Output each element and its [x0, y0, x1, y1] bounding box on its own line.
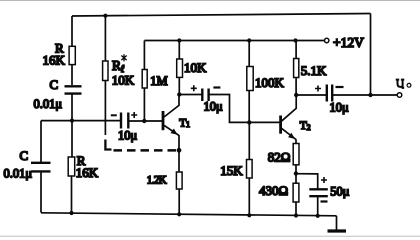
node: 100K rail junction: [247, 38, 251, 42]
wire: shunt R branch down: [71, 121, 73, 157]
terminal +12V: [325, 38, 329, 42]
capacitor C 0.01u (series): [65, 86, 82, 93]
transistor T2 emitter arrow: [288, 133, 295, 139]
svg-text:10μ: 10μ: [330, 101, 350, 115]
wire: cap to output terminal: [332, 94, 397, 96]
scan streak bottom edge: [0, 235, 420, 237]
svg-text:2: 2: [307, 123, 311, 132]
wire: junction to 50u: [296, 174, 318, 189]
svg-text:10μ: 10μ: [204, 100, 224, 114]
svg-text:16K: 16K: [43, 53, 66, 68]
svg-text:430Ω: 430Ω: [259, 183, 288, 198]
transistor T2 base bar: [279, 116, 282, 134]
svg-text:10K: 10K: [112, 73, 135, 88]
wire: emitter node down to 1.2K: [178, 150, 180, 172]
svg-text:5.1K: 5.1K: [301, 63, 327, 78]
transistor T2 collector: [281, 95, 296, 121]
svg-text:C: C: [50, 77, 59, 92]
wire: R16K to C: [71, 65, 73, 85]
wire: 100K to base wire: [248, 91, 250, 123]
node: feedback tap junction: [368, 93, 372, 97]
resistor R 16K (series, top-left): [69, 46, 75, 64]
capacitor 10u output: [327, 85, 332, 102]
wire: bottom ground rail: [41, 213, 337, 216]
node: 50u bottom junction: [316, 214, 320, 218]
node: 1M to base junction: [142, 119, 146, 123]
transistor T1 base bar: [162, 111, 165, 130]
svg-text:0.01μ: 0.01μ: [34, 97, 63, 111]
label plus: [131, 112, 137, 118]
wire: +12V rail: [144, 40, 325, 42]
wire: 100K top lead: [248, 41, 250, 67]
capacitor 50u: [309, 189, 328, 196]
ground: [336, 216, 338, 230]
resistor R 16K (shunt): [68, 157, 75, 176]
node: 10K rail junction: [177, 38, 181, 42]
node: 1.2K bottom junction: [177, 212, 181, 216]
resistor 5.1K: [294, 59, 299, 78]
svg-text:1M: 1M: [150, 74, 167, 88]
wire: series branch top lead: [71, 16, 73, 46]
wire: shunt C branch down: [40, 121, 42, 162]
wire: 1M to base: [143, 88, 145, 121]
wire: 5.1K to collector node: [295, 78, 297, 96]
node: Wien mid junction: [70, 119, 74, 123]
wire: collector to coupling cap: [179, 94, 202, 96]
node: 430 bottom junction: [294, 213, 298, 217]
transistor T1 collector: [164, 95, 179, 118]
resistor 1.2K: [176, 172, 182, 189]
label minus: [321, 200, 328, 202]
resistor 82ohm: [293, 144, 299, 165]
capacitor 10u input coupling: [121, 113, 128, 129]
node: 5.1K rail junction: [293, 38, 297, 42]
resistor 15K: [247, 160, 253, 179]
wire: dashed horizontal to emitter: [114, 149, 180, 152]
label minus: [111, 114, 117, 116]
svg-text:100K: 100K: [255, 75, 285, 90]
resistor 430ohm: [293, 183, 299, 202]
node: 100K base junction: [247, 120, 251, 124]
node: R* top junction: [103, 14, 107, 18]
scan streak top edge: [0, 0, 420, 2]
wire: 15K branch: [248, 122, 250, 159]
svg-text:0.01μ: 0.01μ: [4, 167, 33, 181]
wire: 1M branch top lead: [143, 41, 145, 70]
svg-text:10μ: 10μ: [118, 129, 138, 143]
transistor T1 emitter arrow: [171, 129, 178, 135]
wire: top feedback wire: [72, 14, 371, 17]
label minus: [213, 86, 220, 88]
node: T2 collector junction: [294, 93, 298, 97]
wire: 50u to rail: [317, 196, 319, 216]
capacitor 10u interstage: [202, 89, 208, 102]
svg-text:82Ω: 82Ω: [268, 149, 291, 164]
svg-text:C: C: [20, 148, 29, 163]
wire: output line: [296, 94, 326, 96]
wire: cap to T2 base: [209, 95, 281, 123]
svg-text:1.2K: 1.2K: [147, 175, 167, 187]
svg-text:+12V: +12V: [333, 35, 364, 50]
wire: T1 base wire: [128, 120, 163, 122]
node: emitter divider junction: [294, 171, 298, 175]
wire: 10K to collector node: [178, 77, 180, 94]
svg-text:1: 1: [186, 120, 190, 129]
resistor 100K: [247, 67, 253, 91]
svg-text:16K: 16K: [76, 165, 99, 180]
transistor T1 emitter: [164, 125, 179, 135]
label plus: [321, 177, 327, 183]
node: 15K bottom junction: [247, 213, 251, 217]
node: T1 collector junction: [177, 92, 181, 96]
resistor 1M: [142, 70, 147, 89]
wire: R* branch top lead: [104, 16, 106, 61]
svg-text:15K: 15K: [220, 163, 243, 178]
wire: input horizontal wire: [41, 120, 121, 122]
wire: 5.1K top lead: [295, 41, 297, 59]
terminal uo: [397, 93, 402, 98]
wire: 1.2K to rail: [178, 189, 180, 214]
label minus: [336, 86, 344, 88]
transistor T2 emitter: [281, 128, 296, 139]
resistor 10K: [177, 59, 183, 77]
capacitor C 0.01u (shunt): [31, 163, 51, 172]
label uo: [396, 80, 405, 88]
resistor Rf* 10K: [103, 61, 108, 81]
node: shunt R bottom junction: [69, 211, 73, 215]
svg-text:50μ: 50μ: [330, 185, 350, 199]
wire: feedback vertical right: [370, 14, 372, 96]
label plus: [191, 85, 197, 91]
label plus: [315, 86, 321, 92]
wire: 82 to 430: [295, 165, 297, 183]
wire: 430 to rail: [295, 202, 297, 216]
wire: dashed vertical segment: [105, 140, 111, 150]
node: dashed line to emitter junction: [177, 148, 182, 153]
wire: 10K top lead: [178, 41, 180, 60]
wire: R* lower lead crossing input wire: [104, 81, 106, 136]
svg-text:10K: 10K: [184, 60, 207, 75]
